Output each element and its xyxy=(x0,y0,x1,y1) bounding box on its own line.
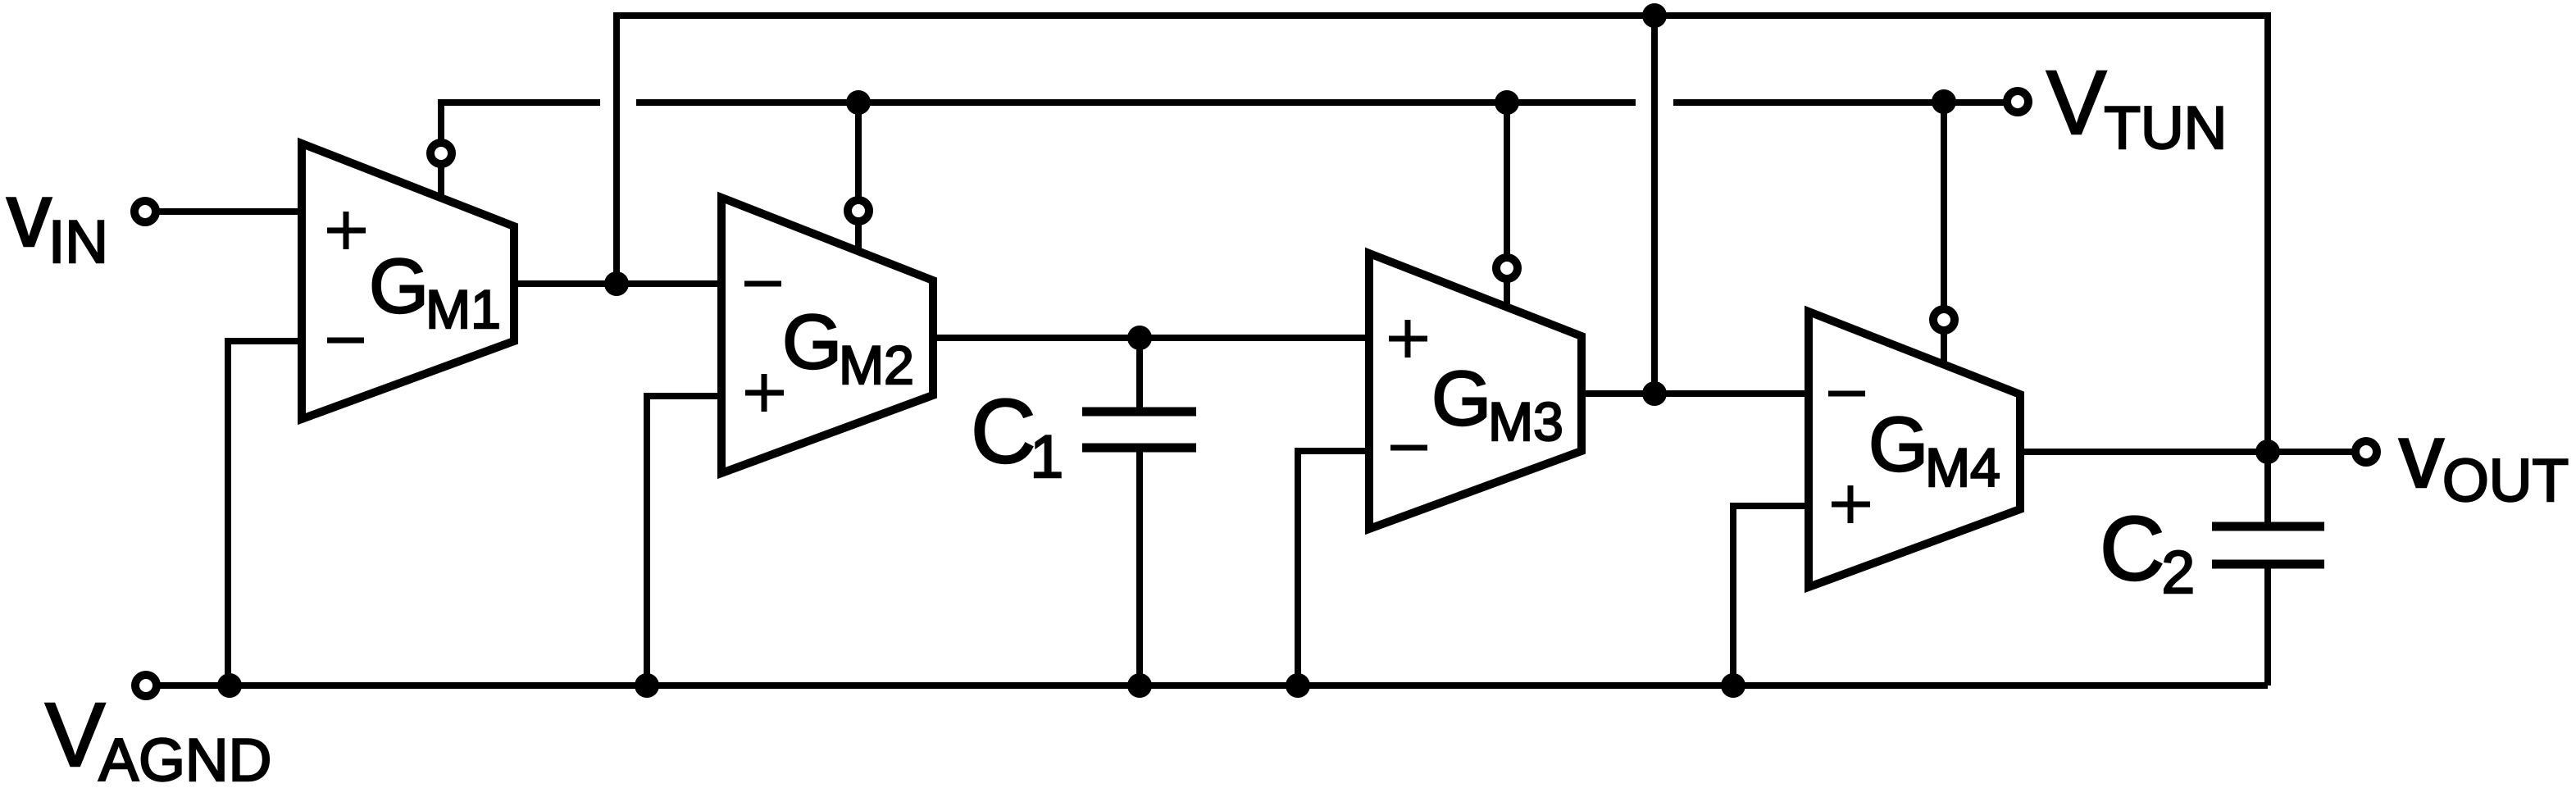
wire GM4 + input return to ground rail xyxy=(1733,506,1809,686)
pin bias circle GM4 xyxy=(1933,309,1955,330)
terminal vOUT xyxy=(2355,441,2377,462)
wire VTUN bus right segment xyxy=(1673,99,2004,106)
wire GM3 - input return to ground rail xyxy=(1298,451,1369,686)
op-amp GM1 (transconductor) xyxy=(302,143,514,419)
junction node C1 bottom / rail xyxy=(1127,673,1152,698)
junction node GM1 out / top bus xyxy=(604,271,629,296)
terminal VTUN xyxy=(2007,91,2028,112)
GM3 minus input symbol xyxy=(1390,445,1427,451)
terminal vIN xyxy=(134,201,156,222)
wire VTUN bus left segment with corner to GM1 pin xyxy=(441,102,600,200)
GM3 plus input symbol xyxy=(1389,320,1427,358)
op-amp GM4 (transconductor) xyxy=(1809,312,2020,587)
wire vIN to GM1 + input xyxy=(145,208,302,215)
capacitor C1 xyxy=(1082,412,1196,448)
GM1 plus input symbol xyxy=(327,212,366,249)
GM1 minus input symbol xyxy=(327,338,364,344)
junction node VTUN bus / GM4 pin xyxy=(1932,89,1956,114)
wire C2 bottom riser xyxy=(2264,568,2271,686)
GM4 minus input symbol xyxy=(1828,391,1865,397)
wire C1 top riser xyxy=(1136,338,1143,408)
junction node GM4 return / rail xyxy=(1721,673,1745,698)
junction node GM3 out xyxy=(1642,381,1667,406)
terminal VAGND xyxy=(135,675,157,696)
wire GM4 output to vOUT terminal xyxy=(2020,449,2352,455)
wire GM1 - input return to ground rail xyxy=(228,341,302,686)
pin bias circle GM1 xyxy=(430,143,452,164)
wire VTUN bus middle segment xyxy=(636,99,1636,106)
GM2 plus input symbol xyxy=(745,374,784,412)
junction node GM2 return / rail xyxy=(635,673,659,698)
GM4 plus input symbol xyxy=(1832,485,1870,523)
junction node C1 top xyxy=(1127,326,1152,350)
wire GM2 pin riser xyxy=(855,102,862,252)
capacitor C2 xyxy=(2212,526,2324,564)
GM2 minus input symbol xyxy=(744,281,781,287)
pin bias circle GM3 xyxy=(1496,257,1518,279)
wire GM4 pin riser xyxy=(1941,102,1947,365)
wire GM3 pin riser xyxy=(1504,102,1510,308)
op-amp GM2 (transconductor) xyxy=(721,198,933,473)
junction node GM1 return / rail xyxy=(217,673,242,698)
wire GM1 output to GM2 - input xyxy=(514,280,721,287)
junction node top bus / GM3 vertical xyxy=(1642,3,1667,28)
junction node GM3 return / rail xyxy=(1286,673,1310,698)
pin bias circle GM2 xyxy=(848,200,869,221)
junction node vOUT xyxy=(2255,440,2280,464)
wire GM3 output to GM4 - input xyxy=(1582,390,1809,397)
wire VAGND ground rail xyxy=(146,682,2268,689)
op-amp GM3 (transconductor) xyxy=(1369,253,1582,529)
wire vertical from top bus to GM3 output node xyxy=(1651,16,1658,394)
wire top feedback bus xyxy=(617,16,2268,526)
wire GM2 output to GM3 + input xyxy=(933,335,1369,341)
wire C1 bottom riser xyxy=(1136,452,1143,686)
junction node VTUN bus / GM3 pin xyxy=(1495,90,1519,115)
wire GM2 + input return to ground rail xyxy=(647,396,721,686)
junction node VTUN bus / GM2 pin xyxy=(846,90,871,115)
